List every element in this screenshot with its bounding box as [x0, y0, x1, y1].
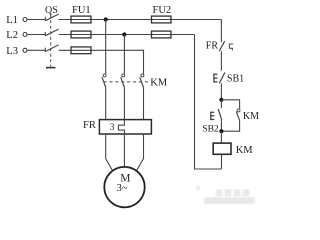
- svg-text:FR: FR: [206, 40, 219, 51]
- svg-text:FR: FR: [83, 120, 96, 131]
- wire hot rail FU2 to FR contact: [220, 20, 222, 43]
- junction B: [219, 129, 223, 133]
- svg-text:KM: KM: [150, 78, 168, 89]
- svg-text:FU1: FU1: [72, 5, 91, 16]
- switch QS: [45, 5, 59, 68]
- wire L1 terminal to QS: [27, 19, 45, 21]
- svg-text:SB2: SB2: [202, 124, 219, 134]
- junction A: [219, 98, 223, 102]
- terminal L1: [6, 15, 27, 26]
- wire SB1 to junction A: [220, 83, 222, 100]
- wire FR contact to SB1: [220, 51, 222, 70]
- contactor KM main contact pole 3: [140, 74, 144, 88]
- wire bottom return to left rail: [195, 35, 222, 170]
- thermal relay FR NC contact (control): [206, 40, 233, 51]
- wire coil to bottom rail: [221, 154, 223, 169]
- contactor coil KM: [213, 143, 253, 156]
- thermal relay FR heater box: [83, 120, 151, 134]
- wire L1 QS to FU2, through FU1: [59, 19, 222, 21]
- motor M: [104, 167, 144, 207]
- junction L2 / pole 2: [122, 32, 126, 36]
- wire L2 terminal to QS: [27, 34, 45, 36]
- svg-text:FU2: FU2: [153, 5, 172, 16]
- terminal L3: [6, 46, 27, 57]
- svg-text:KM: KM: [236, 145, 254, 156]
- wire pole 2 contact to FR box: [123, 88, 125, 120]
- terminal L2: [6, 30, 27, 41]
- wire pole 3 FR box to motor: [136, 134, 143, 171]
- wire KM aux to junction B: [221, 121, 239, 132]
- wire junction A to SB2: [220, 100, 222, 108]
- svg-text:L3: L3: [6, 46, 18, 57]
- contactor KM auxiliary contact: [236, 109, 259, 122]
- wire SB2 to junction B: [220, 120, 222, 131]
- wire junction A to KM aux branch: [221, 100, 239, 109]
- svg-text:3~: 3~: [117, 183, 128, 194]
- svg-text:QS: QS: [45, 5, 58, 16]
- wire L3 terminal to QS: [27, 49, 45, 51]
- junction L1 / pole 1: [104, 17, 108, 21]
- contactor KM main contact pole 1: [102, 74, 106, 88]
- wire L3 QS to pole 3 corner, through FU1: [59, 50, 144, 74]
- wire L2 QS to FU2, through FU1: [59, 34, 195, 36]
- svg-text:3: 3: [110, 123, 115, 133]
- wire pole 2 drop: [123, 35, 125, 74]
- wire pole 3 contact to FR box: [143, 88, 145, 120]
- svg-text:L2: L2: [6, 30, 18, 41]
- wire pole 2 FR box to motor: [123, 134, 125, 167]
- fuse FU1: [71, 5, 91, 54]
- svg-text:KM: KM: [243, 111, 259, 122]
- wire pole 1 drop: [105, 20, 107, 74]
- pushbutton SB1 (NC stop): [214, 72, 244, 84]
- contactor KM main contact pole 2: [121, 74, 125, 88]
- wire junction B to coil: [220, 131, 222, 143]
- KM main contacts linkage: [104, 81, 150, 83]
- fuse FU2: [152, 5, 172, 38]
- wire pole 1 contact to FR box: [105, 88, 107, 120]
- pushbutton SB2 (NO start): [202, 109, 222, 134]
- svg-text:L1: L1: [6, 15, 18, 26]
- watermark: [196, 187, 255, 204]
- wire pole 1 FR box to motor: [106, 134, 113, 171]
- svg-text:SB1: SB1: [227, 73, 244, 84]
